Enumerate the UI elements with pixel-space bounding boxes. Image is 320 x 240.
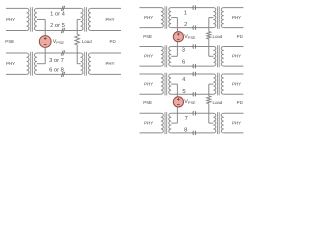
svg-text:PD: PD [110, 39, 116, 44]
label Load (top-right circuit) [213, 34, 223, 39]
label pin 3 (top-right circuit) [182, 47, 185, 54]
cable break on pin 3 wire (top-right circuit) [193, 44, 196, 48]
label PSE (top-right circuit) [143, 34, 152, 39]
wire pin 8 (bottom-right circuit) [171, 132, 213, 134]
svg-text:6: 6 [182, 58, 185, 65]
wire pin 3 or 7 (left circuit) [37, 52, 81, 54]
svg-text:7: 7 [185, 116, 188, 122]
svg-text:6 or 8: 6 or 8 [49, 67, 64, 74]
PHY box bottom-left (top-right circuit) [140, 47, 161, 67]
svg-text:PHY: PHY [144, 54, 153, 59]
wire pin 1 or 4 (left circuit) [37, 7, 81, 9]
transformer T4 (left circuit) [81, 52, 91, 76]
svg-text:PHY: PHY [6, 17, 15, 22]
transformer T4 (bottom-right circuit) [213, 112, 223, 134]
label Load (left circuit) [82, 39, 92, 44]
resistor Load (left circuit) [75, 34, 80, 45]
label pin 1 (top-right circuit) [184, 11, 187, 17]
svg-text:PSE: PSE [5, 39, 14, 44]
voltage source VPSE (bottom-right circuit) [173, 97, 183, 107]
wire pin 6 or 8 (left circuit) [37, 73, 81, 75]
svg-text:3 or 7: 3 or 7 [49, 57, 64, 64]
transformer T1 (top-right circuit) [161, 6, 171, 28]
svg-text:PHY: PHY [232, 54, 241, 59]
svg-text:PHY: PHY [144, 15, 153, 20]
PHY box top-right (left circuit) [91, 8, 121, 30]
cable break on pin 1 or 4 wire (left circuit) [61, 6, 65, 11]
svg-text:1: 1 [184, 11, 187, 17]
svg-text:PSE: PSE [143, 100, 152, 105]
transformer T1 (bottom-right circuit) [161, 73, 171, 96]
wire VPSE to center-tap T3 (bottom-right circuit) [171, 107, 177, 123]
label pin 5 (bottom-right circuit) [182, 89, 185, 95]
svg-text:PHY: PHY [232, 82, 241, 87]
svg-text:1 or 4: 1 or 4 [50, 11, 66, 17]
PHY box top-left (bottom-right circuit) [140, 74, 161, 94]
wire pin 1 (top-right circuit) [171, 7, 213, 9]
svg-text:5: 5 [182, 89, 185, 95]
cable break on pin 6 wire (top-right circuit) [193, 64, 196, 68]
wire center-tap T1 to VPSE (bottom-right circuit) [171, 84, 177, 97]
svg-text:2: 2 [184, 21, 187, 28]
svg-text:PHY: PHY [105, 17, 114, 22]
cable break on pin 3 or 7 wire (left circuit) [61, 50, 65, 55]
svg-text:PD: PD [237, 34, 243, 39]
transformer T3 (bottom-right circuit) [161, 112, 171, 134]
label PD (top-right circuit) [237, 34, 243, 39]
label pin 4 (bottom-right circuit) [182, 77, 186, 83]
svg-text:PHY: PHY [232, 15, 241, 20]
wire pin 3 (top-right circuit) [171, 46, 213, 48]
label PD (bottom-right circuit) [237, 100, 243, 105]
svg-text:PHY: PHY [144, 82, 153, 87]
svg-text:3: 3 [182, 47, 185, 54]
transformer T2 (top-right circuit) [213, 6, 223, 28]
wire center-tap T1 to VPSE (left circuit) [37, 19, 45, 35]
voltage source VPSE (left circuit) [39, 36, 51, 48]
wire center-tap T2 to load (top-right circuit) [209, 18, 214, 32]
cable break on pin 4 wire (bottom-right circuit) [193, 72, 196, 76]
transformer T1 (left circuit) [27, 7, 37, 32]
label pin 7 (bottom-right circuit) [185, 116, 188, 122]
label PSE (bottom-right circuit) [143, 100, 152, 105]
wire pin 2 (top-right circuit) [171, 27, 213, 29]
wire pin 5 (bottom-right circuit) [171, 93, 213, 95]
transformer T3 (left circuit) [27, 52, 37, 76]
cable break on pin 2 or 5 wire (left circuit) [61, 28, 65, 33]
cable break on pin 7 wire (bottom-right circuit) [193, 111, 196, 115]
label pin 6 (top-right circuit) [182, 58, 185, 65]
svg-text:2 or 5: 2 or 5 [50, 22, 65, 29]
wire load to center-tap T4 (top-right circuit) [209, 39, 214, 56]
cable break on pin 1 wire (top-right circuit) [193, 5, 196, 9]
wire load to center-tap T4 (bottom-right circuit) [209, 104, 214, 123]
PHY box top-right (bottom-right circuit) [224, 74, 244, 94]
voltage source VPSE (top-right circuit) [173, 32, 183, 42]
svg-text:PHY: PHY [232, 121, 241, 126]
wire load to center-tap T4 (left circuit) [77, 45, 80, 64]
label pin 8 (bottom-right circuit) [184, 127, 187, 134]
cable break on pin 6 or 8 wire (left circuit) [61, 72, 65, 77]
svg-text:PHY: PHY [105, 61, 114, 66]
transformer T2 (bottom-right circuit) [213, 73, 223, 96]
PHY box bottom-right (top-right circuit) [224, 47, 244, 67]
PHY box top-left (left circuit) [6, 8, 27, 30]
svg-text:PHY: PHY [144, 121, 153, 126]
svg-text:PHY: PHY [6, 61, 15, 66]
resistor Load (top-right circuit) [207, 32, 211, 40]
svg-text:PSE: PSE [143, 34, 152, 39]
PHY box top-right (top-right circuit) [224, 8, 244, 28]
cable break on pin 8 wire (bottom-right circuit) [193, 131, 196, 135]
label PSE (left circuit) [5, 39, 14, 44]
label pin 3 or 7 (left circuit) [49, 57, 64, 64]
cable break on pin 5 wire (bottom-right circuit) [193, 92, 196, 96]
svg-text:Load: Load [82, 39, 92, 44]
svg-text:PD: PD [237, 100, 243, 105]
transformer T3 (top-right circuit) [161, 45, 171, 67]
wire VPSE to center-tap T3 (top-right circuit) [171, 42, 177, 57]
label pin 2 or 5 (left circuit) [50, 22, 65, 29]
label pin 1 or 4 (left circuit) [50, 11, 66, 17]
label VPSE (top-right circuit) [184, 34, 196, 40]
transformer T2 (left circuit) [81, 7, 91, 32]
label PD (left circuit) [110, 39, 116, 44]
label VPSE (bottom-right circuit) [184, 99, 196, 105]
PHY box bottom-right (bottom-right circuit) [224, 113, 244, 133]
svg-text:Load: Load [213, 100, 223, 105]
wire pin 2 or 5 (left circuit) [37, 30, 81, 32]
PHY box top-left (top-right circuit) [140, 8, 161, 28]
svg-text:Load: Load [213, 34, 223, 39]
wire pin 7 (bottom-right circuit) [171, 112, 213, 114]
PHY box bottom-left (left circuit) [6, 53, 27, 74]
svg-text:8: 8 [184, 127, 187, 134]
wire center-tap T2 to load (left circuit) [77, 19, 80, 34]
label Load (bottom-right circuit) [213, 100, 223, 105]
wire center-tap T1 to VPSE (top-right circuit) [171, 18, 177, 32]
resistor Load (bottom-right circuit) [207, 96, 211, 104]
wire pin 6 (top-right circuit) [171, 65, 213, 67]
label pin 2 (top-right circuit) [184, 21, 187, 28]
wire VPSE to center-tap T3 (left circuit) [37, 47, 45, 63]
label VPSE (left circuit) [53, 39, 65, 45]
transformer T4 (top-right circuit) [213, 45, 223, 67]
wire center-tap T2 to load (bottom-right circuit) [209, 84, 214, 96]
cable break on pin 2 wire (top-right circuit) [193, 25, 196, 29]
PHY box bottom-right (left circuit) [91, 53, 121, 74]
label pin 6 or 8 (left circuit) [49, 67, 64, 74]
PHY box bottom-left (bottom-right circuit) [140, 113, 161, 133]
wire pin 4 (bottom-right circuit) [171, 73, 213, 75]
